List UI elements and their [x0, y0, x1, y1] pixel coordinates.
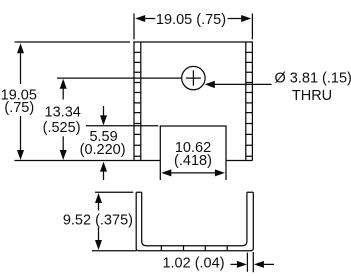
svg-text:THRU: THRU	[292, 88, 332, 104]
svg-text:(0.220): (0.220)	[80, 142, 126, 158]
svg-text:1.02 (.04): 1.02 (.04)	[162, 255, 224, 271]
svg-text:(.418): (.418)	[174, 153, 212, 169]
svg-text:9.52 (.375): 9.52 (.375)	[63, 212, 133, 228]
svg-text:(.75): (.75)	[4, 100, 34, 116]
svg-text:19.05 (.75): 19.05 (.75)	[156, 12, 226, 28]
svg-text:(.525): (.525)	[43, 120, 81, 136]
svg-text:Ø 3.81 (.15): Ø 3.81 (.15)	[275, 71, 351, 87]
svg-text:13.34: 13.34	[45, 104, 81, 120]
